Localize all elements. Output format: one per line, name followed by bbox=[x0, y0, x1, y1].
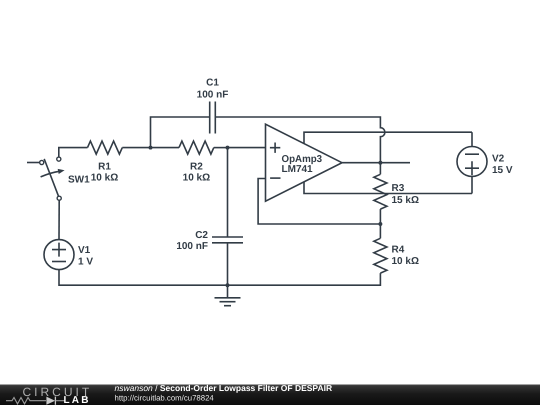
svg-text:1 V: 1 V bbox=[78, 257, 93, 268]
svg-text:nswanson / Second-Order Lowpas: nswanson / Second-Order Lowpass Filter O… bbox=[115, 383, 333, 393]
wire output node down to R3 bbox=[379, 163, 381, 175]
op-amp output wire bbox=[342, 162, 410, 164]
svg-text:100 nF: 100 nF bbox=[176, 241, 208, 252]
op-amp V+ pin stub bbox=[304, 132, 472, 143]
svg-text:LM741: LM741 bbox=[282, 164, 314, 175]
svg-text:LAB: LAB bbox=[64, 395, 91, 405]
wire V2 bottom to V- rail bbox=[471, 177, 473, 194]
CircuitLab logo: resistor squiggle bbox=[6, 398, 46, 404]
svg-text:10 kΩ: 10 kΩ bbox=[91, 173, 118, 184]
svg-text:C1: C1 bbox=[206, 78, 219, 89]
wire node A up to C1 bbox=[151, 117, 210, 148]
svg-text:http://circuitlab.com/cu78824: http://circuitlab.com/cu78824 bbox=[115, 394, 215, 403]
node C junction dot bbox=[378, 222, 382, 226]
resistor R4 bbox=[374, 238, 419, 273]
switch SW1 bbox=[27, 157, 90, 200]
svg-text:15 V: 15 V bbox=[492, 165, 513, 176]
svg-text:V2: V2 bbox=[492, 154, 505, 165]
svg-text:R3: R3 bbox=[392, 183, 405, 194]
wire V1 top to switch bottom terminal bbox=[58, 201, 60, 240]
capacitor C2 bbox=[176, 230, 243, 252]
svg-text:C2: C2 bbox=[195, 230, 208, 241]
voltage source V1 bbox=[44, 240, 93, 270]
wire V2 top to supply rail bbox=[471, 132, 473, 146]
wire R4 to bottom rail bbox=[228, 273, 381, 285]
svg-text:10 kΩ: 10 kΩ bbox=[392, 256, 419, 267]
svg-text:100 nF: 100 nF bbox=[197, 90, 229, 101]
node B junction dot bbox=[226, 146, 230, 150]
voltage source V2 bbox=[457, 147, 513, 177]
wire C1 right plate to output node (with hop over supply wire) bbox=[215, 117, 385, 163]
wire C2 to bottom rail bbox=[227, 243, 229, 285]
svg-text:R4: R4 bbox=[392, 245, 405, 256]
resistor R3 bbox=[374, 174, 419, 209]
wire switch top terminal to R1 bbox=[59, 148, 88, 157]
op-amp U1 OpAmp3 LM741 bbox=[266, 124, 343, 201]
svg-text:SW1: SW1 bbox=[68, 175, 90, 186]
wire node C to R4 bbox=[379, 224, 381, 238]
svg-text:R2: R2 bbox=[190, 161, 203, 172]
wire R2 to node B bbox=[214, 147, 228, 149]
wire R3 to node C bbox=[379, 209, 381, 224]
feedback wire from op-amp - input to node C bbox=[258, 179, 380, 225]
CircuitLab logo: diode symbol bbox=[46, 397, 55, 405]
footer bar bbox=[0, 385, 540, 405]
wire node B to op-amp + input bbox=[228, 147, 266, 149]
bottom rail wire to V1 bbox=[59, 270, 228, 286]
wire node A to R2 bbox=[151, 147, 180, 149]
output node junction dot bbox=[378, 161, 382, 165]
capacitor C1 bbox=[197, 78, 229, 134]
ground bbox=[215, 285, 241, 306]
svg-text:15 kΩ: 15 kΩ bbox=[392, 195, 419, 206]
svg-text:V1: V1 bbox=[78, 245, 91, 256]
svg-text:10 kΩ: 10 kΩ bbox=[183, 173, 210, 184]
node A junction dot bbox=[149, 146, 153, 150]
wire node B down to C2 bbox=[227, 148, 229, 237]
ground junction dot bbox=[226, 283, 230, 287]
wire R1 to node A bbox=[122, 147, 150, 149]
op-amp V- pin stub bbox=[304, 182, 472, 194]
svg-text:R1: R1 bbox=[98, 161, 111, 172]
resistor R2 bbox=[179, 141, 214, 184]
resistor R1 bbox=[88, 141, 123, 184]
